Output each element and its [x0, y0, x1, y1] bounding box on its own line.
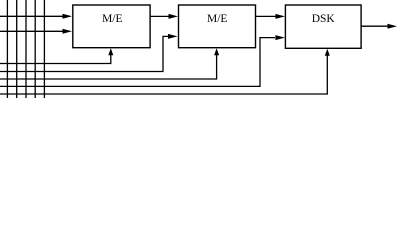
svg-text:M/E: M/E	[207, 13, 227, 25]
svg-text:DSK: DSK	[312, 13, 336, 25]
svg-text:M/E: M/E	[102, 13, 122, 25]
